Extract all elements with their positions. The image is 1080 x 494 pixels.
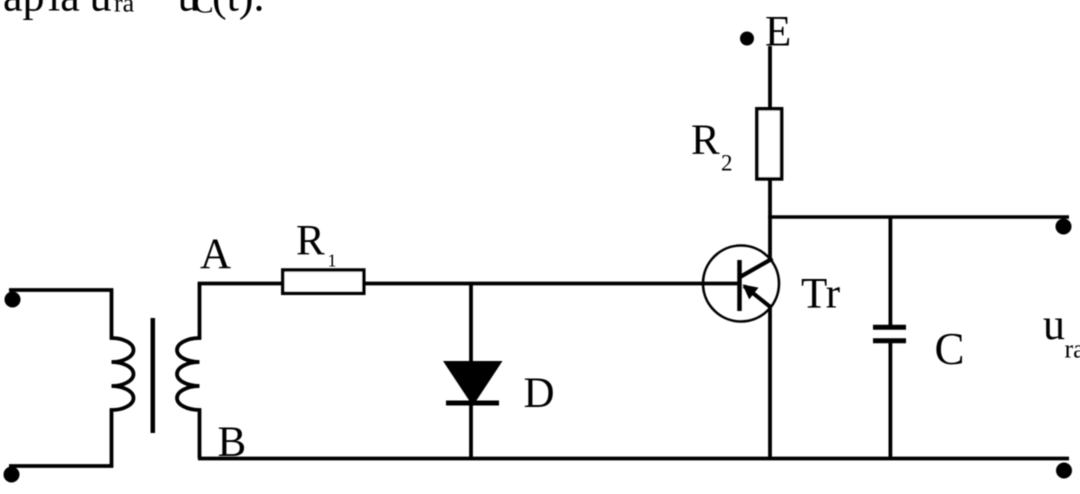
capacitor C: [873, 327, 906, 341]
svg-text:R: R: [691, 117, 720, 164]
svg-text:C: C: [194, 0, 214, 20]
label R1: [296, 218, 337, 271]
supply terminal dot E: [740, 32, 754, 46]
wire: capacitor branch top: [889, 217, 893, 325]
output terminal bottom dot: [1056, 463, 1072, 479]
svg-text:(t).: (t).: [212, 0, 265, 21]
svg-text:C: C: [935, 324, 965, 374]
svg-text:Tr: Tr: [801, 271, 840, 318]
svg-text:ra: ra: [114, 0, 135, 18]
svg-text:là: là: [48, 0, 80, 21]
wire: emitter vertical: [768, 306, 772, 459]
label u_ra output voltage: [1043, 300, 1080, 364]
caption text "áp là ura = uC(t)." (clipped at top): [3, 0, 265, 21]
svg-text:ra: ra: [1065, 335, 1080, 364]
output terminal top dot: [1056, 219, 1072, 235]
input terminal top dot: [5, 292, 21, 308]
wire: primary loop with transformer primary winding: [9, 290, 134, 466]
svg-text:2: 2: [721, 151, 733, 176]
svg-text:A: A: [200, 231, 231, 278]
svg-text:áp: áp: [3, 0, 45, 21]
svg-text:u: u: [1043, 300, 1065, 349]
svg-text:D: D: [524, 370, 555, 417]
resistor R2: [757, 109, 782, 179]
wire: output top rail: [768, 215, 1069, 219]
wire: collector / R2 vertical: [768, 46, 772, 260]
diode D: [443, 361, 503, 406]
svg-text:E: E: [765, 9, 791, 56]
svg-text:1: 1: [328, 251, 337, 271]
svg-text:u: u: [90, 0, 112, 21]
wire: node A row horizontal: [198, 282, 741, 286]
wire: diode branch vertical: [469, 285, 473, 457]
wire: bottom rail: [198, 457, 1069, 461]
transformer secondary winding: [177, 284, 200, 459]
svg-text:R: R: [296, 218, 325, 265]
input terminal bottom dot: [4, 467, 20, 483]
wire: capacitor branch bottom: [889, 343, 893, 459]
transformer core: [151, 318, 156, 433]
label R2: [691, 117, 733, 176]
resistor R1: [283, 270, 364, 293]
transistor Tr: [703, 246, 779, 322]
